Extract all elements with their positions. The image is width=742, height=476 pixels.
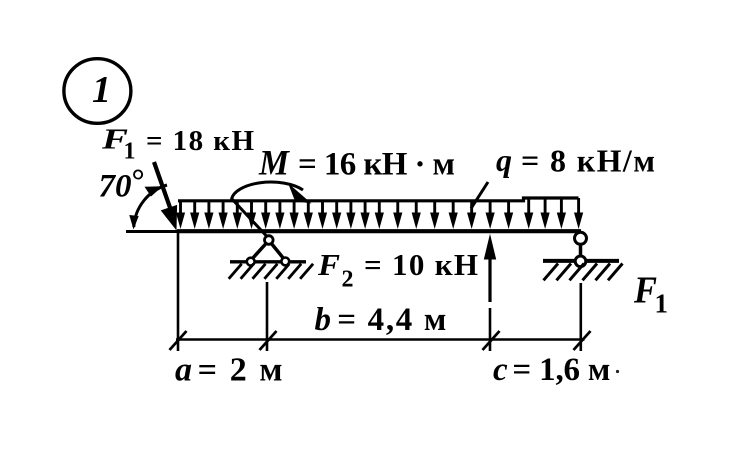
- beam: [177, 229, 581, 233]
- svg-text:b: b: [315, 302, 332, 338]
- force F2 arrow: [484, 234, 496, 302]
- svg-text:F: F: [317, 247, 340, 282]
- svg-text:1: 1: [92, 69, 111, 111]
- svg-text:1: 1: [124, 139, 136, 165]
- label b = 4,4 m: [315, 302, 447, 338]
- svg-text:c: c: [493, 352, 508, 388]
- label F1 (right): [633, 269, 668, 318]
- dimension line: [176, 338, 585, 340]
- extension line at F2: [489, 308, 492, 351]
- svg-text:1: 1: [655, 289, 669, 319]
- angle arc: [129, 185, 167, 230]
- extension line at beam left end: [177, 233, 180, 351]
- dimension tick at x=581: [574, 331, 591, 350]
- svg-text:q: q: [496, 142, 512, 178]
- pin support A (hinge on rollers): [229, 236, 313, 279]
- svg-text:a: a: [175, 351, 192, 388]
- moment anchor line: [232, 199, 267, 237]
- dimension tick at x=178: [170, 331, 187, 350]
- roller support B (link with two hinges): [543, 232, 623, 280]
- svg-text:= 8 кН/м: = 8 кН/м: [521, 143, 655, 179]
- svg-text:= 1,6 м: = 1,6 м: [512, 352, 610, 388]
- label F2 = 10 kN: [317, 247, 478, 292]
- q leader line: [471, 182, 488, 209]
- moment arc M: [232, 182, 312, 203]
- svg-text:= 16 кН · м: = 16 кН · м: [298, 147, 455, 183]
- svg-text:= 2 м: = 2 м: [198, 351, 283, 388]
- svg-text:M: M: [258, 143, 291, 183]
- svg-text:F: F: [633, 269, 657, 311]
- label a = 2 m: [175, 351, 283, 388]
- extension line at roller support: [579, 283, 582, 351]
- svg-text:2: 2: [342, 267, 354, 293]
- label c = 1,6 m: [493, 352, 610, 388]
- force F1 arrow: [154, 162, 177, 231]
- label M = 16 kN·m: [258, 143, 455, 183]
- beam extension line left: [126, 230, 178, 233]
- distributed load top line: [178, 198, 579, 201]
- speck dot after c label: [616, 370, 619, 373]
- distributed load arrows: [176, 198, 583, 229]
- svg-text:°: °: [132, 163, 145, 199]
- dimension tick at x=267: [260, 331, 277, 350]
- svg-text:70: 70: [99, 169, 132, 205]
- extension line at pin support: [266, 282, 269, 351]
- problem number circle 1: [64, 59, 131, 124]
- svg-text:= 4,4 м: = 4,4 м: [337, 302, 446, 338]
- svg-text:= 18 кН: = 18 кН: [146, 125, 254, 157]
- label F1 = 18 kN: [101, 124, 255, 165]
- svg-text:= 10 кН: = 10 кН: [364, 247, 478, 282]
- label q = 8 kN/m: [496, 142, 655, 179]
- dimension tick at x=490: [483, 331, 500, 350]
